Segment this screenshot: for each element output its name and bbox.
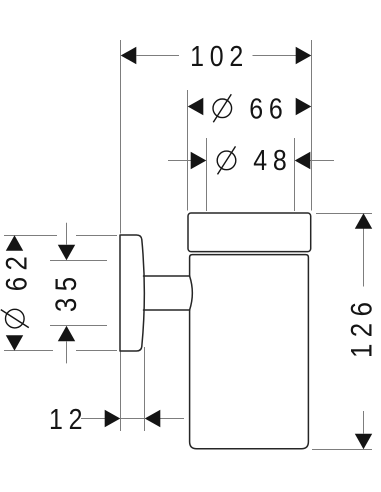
arrow 35 bottom pointing up <box>58 326 75 342</box>
arm bottom edge <box>144 309 190 311</box>
arrow 12 right pointing left <box>145 410 161 427</box>
svg-text:66: 66 <box>249 93 288 125</box>
wire: 35 dimension line below bottom arrow <box>66 342 68 364</box>
svg-text:48: 48 <box>253 144 292 176</box>
wire: 126 bottom extension <box>312 449 372 451</box>
svg-text:102: 102 <box>190 40 249 72</box>
wire: wall line below plate <box>120 352 122 432</box>
svg-text:126: 126 <box>345 296 378 358</box>
wire: 12 leader from text <box>81 418 105 420</box>
arrow O62 top pointing up <box>6 235 23 251</box>
arm end cap bulge <box>190 276 193 310</box>
object outlines <box>120 213 311 449</box>
black arrowheads <box>6 47 372 450</box>
wire: O48 left leader <box>168 160 192 162</box>
arrow 126 bottom pointing down <box>355 434 372 450</box>
svg-text:12: 12 <box>49 403 88 435</box>
arm top edge <box>144 275 190 277</box>
wire: 12 dimension line between extensions <box>121 418 145 420</box>
wire: 126 top extension <box>316 213 372 215</box>
arrow 126 top pointing up <box>355 213 372 229</box>
diameter symbol of O62 rotated <box>1 309 29 328</box>
wire: O48 right extension <box>294 138 296 211</box>
wire: O48 left extension <box>206 138 208 211</box>
wire: O62 top extension right part <box>76 235 117 237</box>
wire: 12 right extension line <box>144 347 146 431</box>
svg-text:62: 62 <box>0 250 33 292</box>
wire: O62 bottom extension left part <box>4 350 53 352</box>
arrow 102 right <box>296 47 312 64</box>
wire: 35 top extension <box>50 260 107 262</box>
dimension texts <box>0 40 378 435</box>
holder ring rim <box>188 213 311 252</box>
arrow O48 right pointing left <box>295 152 311 169</box>
wire: 12 right leader <box>160 418 184 420</box>
wall plate <box>120 235 144 351</box>
wire: 35 bottom extension <box>50 325 107 327</box>
wire: 102 left extension / wall line above plate <box>120 40 122 234</box>
wire: 102 and O66 shared right extension <box>311 40 313 211</box>
svg-text:35: 35 <box>49 271 82 313</box>
arrow 35 top pointing down <box>58 245 75 261</box>
diameter symbol of O66 <box>213 94 232 122</box>
wire: O62 top extension left part <box>4 235 57 237</box>
wire: 102 dimension line right segment <box>253 55 297 57</box>
wire: 126 dimension line upper segment <box>363 229 365 287</box>
wire: 102 dimension line left segment <box>137 55 180 57</box>
diameter symbol of O48 <box>217 146 236 174</box>
arrow 12 left pointing right <box>105 410 121 427</box>
arrow O66 right <box>296 98 312 115</box>
wire: 35 dimension line above top arrow <box>66 223 68 245</box>
wire: O48 right leader <box>310 160 334 162</box>
arrow O66 left <box>188 98 204 115</box>
wire: 126 dimension line lower segment <box>363 411 365 434</box>
wire: O66 left extension <box>187 90 189 211</box>
arrow O48 left pointing right <box>191 152 207 169</box>
arrow 102 left <box>121 47 137 64</box>
wire: O62 bottom extension right part <box>76 350 117 352</box>
tumbler body <box>190 255 309 449</box>
arrow O62 bottom pointing down <box>6 335 23 351</box>
